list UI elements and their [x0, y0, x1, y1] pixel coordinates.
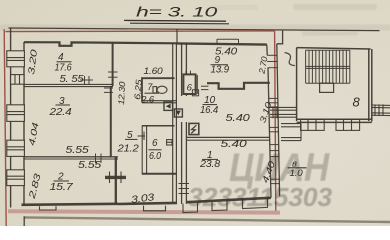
- window W1 room4: [7, 51, 25, 67]
- balcony door ticks right wall: [269, 127, 278, 131]
- room 4 right wall: [112, 42, 114, 86]
- dividing wall room side: [182, 43, 187, 204]
- svg-text:3.20: 3.20: [26, 49, 39, 75]
- step under corridor: [144, 206, 166, 211]
- door bar room2-corridor: [105, 172, 126, 184]
- room 7 walls: [142, 78, 175, 101]
- staircase block outline: [297, 48, 372, 123]
- svg-text:16.4: 16.4: [200, 105, 219, 116]
- lobby step wall top right: [277, 31, 283, 44]
- svg-text:1.60: 1.60: [144, 66, 164, 77]
- svg-text:3.10: 3.10: [257, 100, 273, 124]
- window rungs room1 right wall lower: [270, 179, 279, 183]
- window box under stair left: [301, 119, 325, 130]
- door ticks room9 entry: [201, 86, 209, 89]
- window box under stair right: [336, 119, 360, 130]
- svg-text:6: 6: [187, 82, 193, 93]
- room 2 label: [50, 172, 75, 194]
- red outline left vertical: [4, 29, 6, 226]
- facade step vertical x177: [176, 29, 178, 44]
- flue box left wall: [11, 75, 24, 85]
- stair-landing right connection walls: [372, 104, 390, 116]
- vent box with triangle 1: [164, 102, 173, 110]
- wall room9|room10 with recess: [207, 83, 270, 89]
- window box under room1 left: [183, 203, 198, 213]
- entrance door rungs right wall: [267, 55, 278, 67]
- window rungs room10 right wall: [269, 98, 279, 107]
- left exterior wall inner face: [23, 42, 25, 205]
- svg-text:23.8: 23.8: [199, 159, 221, 170]
- room 9 facade top wall: [177, 43, 267, 44]
- fold shadow band: [0, 25, 390, 31]
- balcony label: [288, 159, 307, 180]
- svg-text:5.40: 5.40: [215, 47, 238, 58]
- wall room4|room3: [24, 83, 113, 85]
- svg-text:12.30: 12.30: [116, 81, 127, 105]
- room 9 label: [211, 55, 230, 76]
- window W2 room3: [7, 105, 25, 122]
- room 6 label: [149, 138, 162, 162]
- window box under room1 mid: [212, 201, 227, 211]
- stair newel box: [320, 83, 334, 92]
- dividing wall hall side: [172, 43, 174, 203]
- building facade top line: [9, 28, 380, 31]
- svg-text:21.2: 21.2: [116, 142, 138, 154]
- window W4 room2: [7, 170, 25, 186]
- svg-text:h= 3. 10: h= 3. 10: [136, 5, 218, 20]
- room7 bottom wall: [142, 100, 177, 102]
- red outline right vertical: [275, 31, 276, 211]
- vent box with triangle 2: [174, 109, 182, 117]
- top inner wall with niche (rooms 4..hall): [24, 42, 177, 46]
- stair flights hatching: [306, 50, 350, 83]
- vent box 6: [183, 74, 197, 94]
- svg-text:4.04: 4.04: [27, 122, 41, 147]
- dim ticks 5.55 room4: [80, 76, 93, 84]
- red outline top horizontal: [5, 30, 274, 33]
- room1 bottom wall: [187, 198, 271, 202]
- room 7 label: [140, 82, 159, 104]
- svg-text:8: 8: [353, 95, 361, 110]
- svg-text:3233115303: 3233115303: [188, 182, 333, 212]
- balcony outline: [281, 124, 301, 141]
- room3 right wall: [110, 86, 112, 158]
- dim ticks 12.30: [104, 88, 113, 92]
- room 10 label: [200, 95, 219, 116]
- room 3 label: [48, 96, 72, 118]
- title h=3.10: [124, 5, 229, 24]
- bottom gray line: [24, 217, 390, 222]
- room 6 walls: [142, 126, 177, 175]
- svg-text:5.55: 5.55: [78, 160, 102, 171]
- right exterior wall inner face: [266, 45, 268, 55]
- lightning box room10: [189, 123, 199, 134]
- svg-text:22.4: 22.4: [48, 106, 72, 118]
- svg-text:6: 6: [152, 138, 158, 149]
- small box below box6: [192, 90, 198, 96]
- svg-text:2.6: 2.6: [140, 95, 154, 105]
- room 4 label: [55, 52, 72, 74]
- svg-text:17.6: 17.6: [55, 62, 72, 74]
- red bottom band: [8, 211, 280, 212]
- step under room2 wall: [40, 206, 57, 210]
- room 1 label: [199, 150, 221, 170]
- svg-text:13.9: 13.9: [211, 65, 230, 76]
- left exterior wall outer face: [10, 28, 12, 208]
- window rungs room1 right wall: [270, 145, 279, 157]
- svg-text:5.55: 5.55: [66, 145, 90, 156]
- wall room10|room1: [187, 136, 270, 138]
- toilet fixture: [153, 86, 167, 93]
- svg-text:5.40: 5.40: [226, 113, 251, 124]
- stair-landing left connection walls: [270, 106, 297, 118]
- svg-text:2.83: 2.83: [26, 173, 42, 201]
- window W3 room3: [7, 140, 25, 156]
- room2 bottom wall: [22, 204, 119, 205]
- room6 fixture: [167, 140, 172, 145]
- dim ticks 5.55 room2: [96, 154, 102, 164]
- wall room2|corridor5: [115, 157, 117, 204]
- bottom left vertical stub: [23, 216, 25, 226]
- svg-text:6.0: 6.0: [149, 151, 162, 162]
- bleedthrough smudges top right: [210, 4, 377, 36]
- svg-text:15.7: 15.7: [50, 181, 75, 193]
- window box under room1 right: [243, 198, 268, 209]
- door ticks corridor-room1: [179, 184, 190, 194]
- staircase door swing: [285, 53, 295, 66]
- dim bracket 5.40 above room9: [217, 39, 239, 44]
- door ticks room4-hall: [108, 72, 118, 77]
- room 5 label: [116, 130, 145, 154]
- wall room3|room2: [24, 156, 118, 158]
- corridor bottom wall: [118, 203, 177, 204]
- svg-text:5. 55: 5. 55: [60, 74, 85, 85]
- right exterior wall outer face: [277, 44, 280, 196]
